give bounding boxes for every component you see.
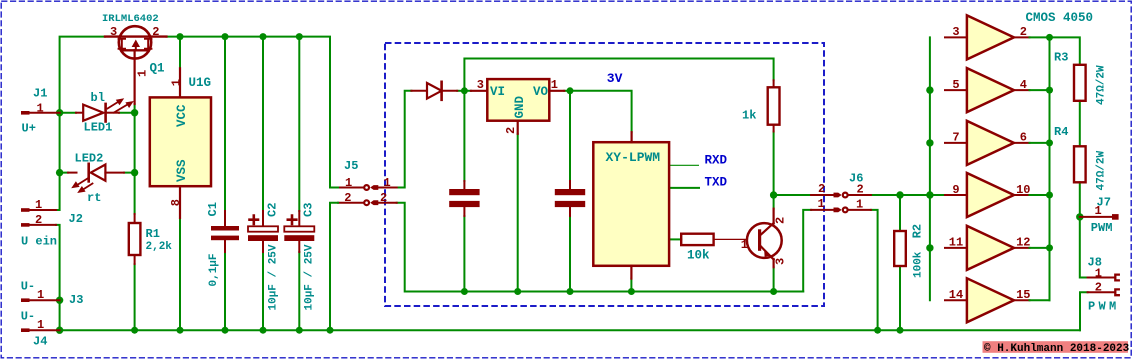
capacitor C2 10µF/25V (polarized) (248, 211, 278, 252)
wire R4 bottom to J7 node (1079, 182, 1081, 217)
wire bottom bus (60, 329, 1080, 331)
svg-text:2: 2 (35, 213, 42, 227)
wire U1G VSS to bottom bus (179, 218, 181, 330)
svg-text:C2: C2 (266, 203, 280, 217)
svg-text:C1: C1 (206, 202, 220, 216)
wire U1G VCC drop (179, 37, 181, 69)
wire J6 pin1 right drop (871, 210, 878, 330)
node bottom bus C1 (222, 327, 229, 334)
wire R1 bottom (134, 264, 136, 330)
svg-text:1: 1 (37, 288, 44, 302)
wire C2 top drop (262, 37, 264, 211)
capacitor C1 0,1µF (211, 211, 239, 252)
wire bottom bus up to J8 pin2 (1080, 292, 1088, 330)
IC U4F 4050 buffer 6 (945, 278, 1050, 322)
wire LED2 row (60, 172, 135, 174)
svg-text:LED1: LED1 (84, 121, 113, 135)
wire XY-LPWM gnd pin (630, 279, 632, 292)
node LED2 / gate rail (131, 169, 138, 176)
svg-text:J3: J3 (69, 293, 83, 307)
svg-text:2: 2 (504, 127, 518, 134)
node bottom bus R2 (897, 327, 904, 334)
node LED2 / left rail (56, 169, 63, 176)
wire internal ground bus (397, 203, 804, 292)
svg-text:J1: J1 (33, 86, 47, 100)
svg-text:47Ω/2W: 47Ω/2W (1096, 65, 1108, 105)
node VO / 3V (567, 87, 574, 94)
wire C1 bottom (224, 252, 226, 330)
node gnd bus XY-LPWM (628, 288, 635, 295)
svg-text:VI: VI (490, 85, 505, 99)
svg-text:5: 5 (952, 78, 959, 92)
IC U4B 4050 buffer 2 (945, 68, 1050, 112)
svg-text:1: 1 (345, 176, 352, 190)
connector J1 pin 1 (21, 111, 60, 115)
connector J2 pin 1 (21, 208, 56, 212)
svg-text:100k: 100k (913, 251, 925, 278)
svg-text:2: 2 (380, 191, 387, 205)
svg-text:VCC: VCC (175, 104, 189, 127)
wire TXD stub (669, 187, 699, 189)
svg-text:3: 3 (952, 25, 959, 39)
LED2 (rt) (68, 164, 124, 193)
svg-text:2: 2 (818, 182, 825, 196)
wire C2 bottom (262, 252, 264, 330)
node gnd bus reg (514, 288, 521, 295)
svg-text:U ein: U ein (21, 235, 57, 249)
node output bus row5 (1046, 244, 1053, 251)
node gnd bus cap CB (567, 288, 574, 295)
svg-text:2: 2 (1095, 281, 1102, 295)
svg-text:J4: J4 (33, 335, 47, 349)
svg-text:2: 2 (344, 191, 351, 205)
node top bus / C2 (260, 33, 267, 40)
svg-text:3V: 3V (607, 71, 623, 86)
voltage regulator U2 (VI/VO/GND) (471, 79, 564, 134)
wire reg GND down (517, 134, 519, 292)
node input bus row2 (926, 86, 933, 93)
wire 3V top rail (464, 59, 773, 91)
wire cap CB top (569, 91, 571, 181)
connector J8 pin 1 (1088, 275, 1119, 281)
svg-text:7: 7 (952, 131, 959, 145)
wire J5 pin1 to diode riser (397, 91, 412, 188)
transistor Q1 IRLML6402 (P-MOSFET) (105, 26, 166, 104)
svg-text:1: 1 (384, 176, 391, 190)
node bottom bus C2 (260, 327, 267, 334)
svg-text:4: 4 (1020, 78, 1027, 92)
svg-text:U+: U+ (22, 122, 36, 136)
svg-text:1: 1 (1095, 204, 1102, 218)
node gnd bus emitter (770, 288, 777, 295)
wire LED1 row (60, 112, 135, 114)
svg-text:6: 6 (1020, 131, 1027, 145)
wire C3 bottom (298, 252, 300, 330)
module boundary dashed box (385, 43, 824, 306)
node top bus / U1G VCC (177, 33, 184, 40)
svg-text:3: 3 (110, 25, 117, 39)
svg-text:0,1µF: 0,1µF (208, 253, 220, 286)
svg-text:XY-LPWM: XY-LPWM (606, 150, 661, 165)
wire cap CA bottom (463, 216, 465, 292)
svg-text:RXD: RXD (705, 153, 728, 167)
IC U4E 4050 buffer 5 (945, 226, 1050, 270)
svg-text:PWM: PWM (1088, 300, 1120, 314)
node J3 (56, 297, 63, 304)
wire cap CA top (463, 91, 465, 181)
svg-text:1: 1 (741, 238, 748, 252)
node bottom bus R1 (131, 327, 138, 334)
svg-text:bl: bl (91, 91, 105, 105)
node top bus / C3 (296, 33, 303, 40)
wire collector node down (773, 195, 775, 209)
connector J3 pin 1 (21, 298, 60, 302)
svg-text:2: 2 (774, 217, 788, 224)
node J1 / left rail (56, 109, 63, 116)
svg-text:1: 1 (551, 78, 558, 92)
resistor R6 10k (681, 234, 747, 245)
wire J5 pin2 left feed (330, 203, 338, 331)
node collector / 1k / J6 (770, 191, 777, 198)
node input bus J6 row (926, 191, 933, 198)
node bottom bus J5 drop (327, 327, 334, 334)
wire R3-R4 link (1079, 101, 1081, 147)
connector J5 pin 1 (mating pair) (338, 185, 397, 190)
IC U4D 4050 buffer 4 (945, 173, 1050, 217)
svg-text:1k: 1k (742, 108, 756, 122)
connector J5 pin 2 (mating pair) (338, 200, 397, 205)
node input bus row5 (926, 244, 933, 251)
wire cap CB bottom (569, 216, 571, 292)
svg-text:© H.Kuhlmann 2018-2023: © H.Kuhlmann 2018-2023 (984, 343, 1130, 355)
node output bus row4 (1046, 192, 1053, 199)
svg-text:1: 1 (37, 101, 44, 115)
svg-text:R3: R3 (1054, 51, 1068, 65)
connector J6 pin 2 (mating pair) (811, 193, 871, 198)
svg-text:LED2: LED2 (75, 152, 104, 166)
resistor R1 2,2k (129, 214, 141, 264)
svg-text:CMOS 4050: CMOS 4050 (1026, 11, 1094, 25)
svg-text:GND: GND (513, 95, 527, 118)
diode D1 (411, 82, 457, 100)
wire 4050 input bus (929, 37, 931, 300)
wire 10k left (669, 238, 681, 240)
svg-text:15: 15 (1016, 288, 1030, 302)
svg-text:1: 1 (1095, 266, 1102, 280)
resistor R3 47R/2W (1074, 65, 1086, 101)
svg-text:3: 3 (477, 78, 484, 92)
wire J6 pin2 row left (774, 194, 812, 196)
svg-text:PWM: PWM (1091, 221, 1113, 235)
IC U1G box (VCC/VSS power gate) (150, 68, 211, 218)
svg-text:J5: J5 (344, 159, 358, 173)
svg-text:VO: VO (533, 85, 549, 99)
svg-text:1: 1 (856, 197, 863, 211)
IC U4C 4050 buffer 3 (945, 121, 1050, 165)
connector J7 pin 1 (1080, 214, 1119, 220)
wire left rail J2 pin2 to bottom (56, 225, 60, 330)
node bottom bus VSS (177, 327, 184, 334)
svg-text:2: 2 (1020, 25, 1027, 39)
svg-text:8: 8 (169, 199, 183, 206)
wire 4050 output bus (1049, 37, 1051, 300)
svg-text:U-: U- (21, 309, 35, 323)
svg-text:rt: rt (87, 191, 101, 205)
wire C1 top drop (224, 37, 226, 211)
svg-text:14: 14 (949, 288, 963, 302)
wire RXD stub (thin) (669, 164, 699, 166)
node bottom bus J6 pin1 drop (874, 327, 881, 334)
wire R3 top feed (1050, 37, 1080, 64)
svg-text:C3: C3 (302, 203, 316, 217)
wire emitter to ground bus (773, 267, 775, 291)
module U3 XY-LPWM box (593, 132, 669, 278)
wire R2 bottom (899, 266, 901, 330)
svg-text:1: 1 (818, 197, 825, 211)
wire J7 node down to J8 pin1 (1080, 217, 1088, 278)
capacitor CB (output cap) (555, 181, 585, 216)
resistor R5 1k (768, 80, 780, 131)
copyright watermark (983, 341, 1130, 355)
wire left rail J1 to J2 pin1 (56, 113, 60, 210)
svg-text:2: 2 (857, 182, 864, 196)
svg-text:1: 1 (135, 70, 149, 77)
node gnd bus cap CA (461, 288, 468, 295)
wire R2 top (899, 195, 901, 231)
connector J8 pin 2 (1088, 289, 1119, 295)
svg-text:10k: 10k (687, 248, 710, 262)
svg-text:2: 2 (152, 25, 159, 39)
svg-text:R2: R2 (911, 224, 925, 238)
node R2 top (896, 191, 903, 198)
resistor R2 100k (894, 231, 906, 266)
svg-text:TXD: TXD (705, 176, 728, 190)
svg-text:U-: U- (21, 279, 35, 293)
LED1 (bl) (76, 98, 134, 121)
svg-text:10µF / 25V: 10µF / 25V (304, 244, 316, 310)
IC U4A 4050 buffer 1 (945, 15, 1050, 59)
wire diode cathode to node (457, 90, 464, 92)
svg-text:Q1: Q1 (150, 62, 165, 76)
wire node to VI pin (464, 90, 471, 92)
wire J5 pin1 left feed (330, 187, 338, 189)
wire C3 top drop (298, 37, 300, 211)
capacitor C3 10µF/25V (polarized) (284, 211, 314, 252)
svg-text:47Ω/2W: 47Ω/2W (1096, 150, 1108, 190)
svg-text:11: 11 (949, 236, 963, 250)
svg-text:2,2k: 2,2k (146, 241, 173, 253)
svg-text:VSS: VSS (175, 159, 189, 182)
node output bus row1 corner (1046, 34, 1053, 41)
wire 3V node to XY-LPWM vcc (570, 91, 632, 132)
resistor R4 47R/2W (1074, 146, 1086, 182)
node diode / VI (461, 87, 468, 94)
svg-text:J2: J2 (69, 212, 83, 226)
svg-text:1: 1 (170, 79, 184, 86)
wire top bus right of Q1 (166, 37, 330, 188)
wire J6 pin1 elbow from ground bus (803, 210, 811, 292)
node bottom bus C3 (296, 327, 303, 334)
node output bus row2 (1046, 87, 1053, 94)
svg-text:9: 9 (952, 183, 959, 197)
connector J6 pin 1 (mating pair) (811, 208, 871, 213)
svg-text:10: 10 (1016, 183, 1030, 197)
svg-text:10µF / 25V: 10µF / 25V (268, 244, 280, 310)
wire 1k bottom to collector node (773, 132, 775, 196)
connector J2 pin 2 (21, 223, 56, 227)
wire J6 pin2 row right (871, 194, 945, 196)
svg-text:12: 12 (1016, 236, 1030, 250)
node input bus row3 (926, 139, 933, 146)
node J7 / R4 (1076, 213, 1083, 220)
svg-text:3: 3 (774, 258, 788, 265)
svg-text:IRLML6402: IRLML6402 (102, 13, 159, 25)
svg-text:1: 1 (35, 198, 42, 212)
connector J4 pin 1 (21, 328, 60, 332)
svg-text:1: 1 (37, 318, 44, 332)
svg-text:R4: R4 (1054, 125, 1068, 139)
wire VO to 3V node (564, 90, 570, 92)
transistor Q2 (NPN) (747, 209, 782, 268)
svg-text:U1G: U1G (189, 76, 212, 90)
node top bus / C1 (222, 33, 229, 40)
node LED1 / gate rail (131, 109, 138, 116)
wire Q1 gate chain x=134.6 (134, 104, 136, 214)
capacitor CA (input cap) (449, 181, 479, 216)
wire top bus left from J1 riser (60, 37, 105, 113)
node output bus row3 (1046, 139, 1053, 146)
node J4 / bottom bus (56, 327, 63, 334)
svg-text:R1: R1 (146, 227, 160, 241)
